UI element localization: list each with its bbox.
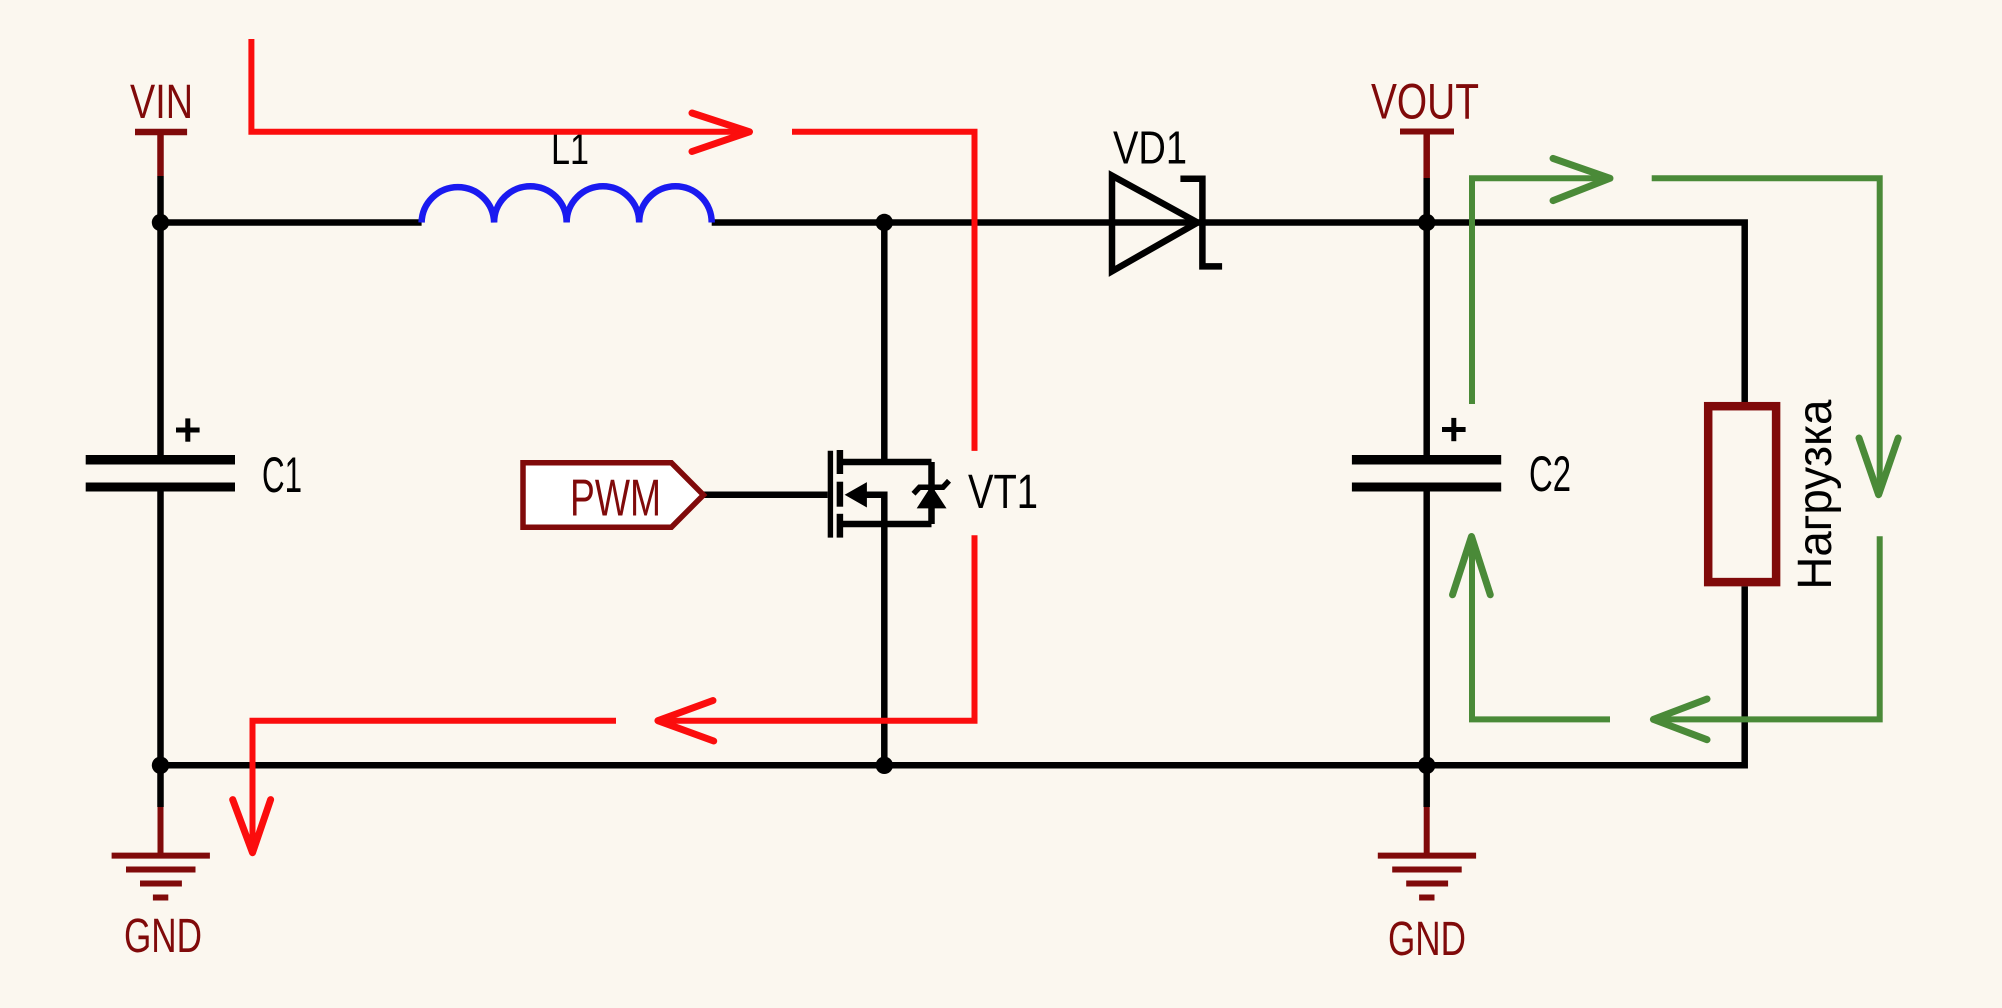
svg-text:C1: C1 <box>262 447 302 503</box>
wire VOUT rail lower (C2 to GND) <box>1423 492 1430 766</box>
svg-text:PWM: PWM <box>570 470 661 528</box>
wire VOUT rail upper (to C2) <box>1423 223 1430 456</box>
svg-text:C2: C2 <box>1529 446 1571 502</box>
ground GND1 <box>112 807 210 898</box>
wire VT1 drain <box>881 223 888 463</box>
green arrow left (bottom) <box>1653 699 1707 740</box>
capacitor C1 <box>86 418 235 487</box>
VT1 body diode triangle <box>918 486 946 508</box>
wire VIN stub <box>157 176 164 223</box>
ground GND2 <box>1378 807 1476 898</box>
wire VT1 source to GND <box>881 524 888 765</box>
node VT1 source junction <box>876 757 893 774</box>
resistor load (Нагрузка) <box>1708 406 1776 582</box>
power symbol VIN <box>135 132 187 176</box>
svg-text:VOUT: VOUT <box>1371 74 1479 130</box>
node GND left junction <box>152 757 169 774</box>
svg-text:GND: GND <box>124 910 202 963</box>
green arrow up (left leg) <box>1453 537 1491 595</box>
svg-text:VIN: VIN <box>130 76 193 129</box>
capacitor C2 <box>1352 418 1501 487</box>
wire GND1 stub <box>157 765 164 807</box>
red arrow right (top) <box>692 113 750 152</box>
svg-text:VD1: VD1 <box>1113 122 1187 174</box>
wire left rail lower (C1 to GND net) <box>157 492 164 766</box>
green current path: VOUT through load loop <box>1472 178 1880 719</box>
wire left rail upper (VIN node to C1) <box>157 223 164 456</box>
svg-text:GND: GND <box>1388 913 1466 966</box>
node GND right junction <box>1418 757 1435 774</box>
node VT1 drain junction <box>876 214 893 231</box>
red arrow down (to GND) <box>233 800 271 853</box>
red current path: VIN to VT1 drain (on-state loop, top) <box>251 39 974 849</box>
diode VD1 <box>1112 176 1222 272</box>
wire bottom net (GND rail) <box>161 586 1745 765</box>
inductor L1 <box>422 186 712 222</box>
svg-text:Нагрузка: Нагрузка <box>1789 399 1842 589</box>
green arrow down (right leg) <box>1859 438 1898 495</box>
power symbol VOUT <box>1400 132 1454 179</box>
red arrow left (bottom) <box>658 701 714 742</box>
transistor VT1 (N-MOSFET) <box>830 450 949 538</box>
node VIN junction <box>152 214 169 231</box>
wire L1 to load corner (top net through VD1, VOUT) <box>712 223 1745 403</box>
svg-text:VT1: VT1 <box>968 466 1038 519</box>
node VOUT junction <box>1418 214 1435 231</box>
wire GND2 stub <box>1423 765 1430 807</box>
VT1 source arrow <box>846 483 867 507</box>
green arrow right (top) <box>1553 158 1610 200</box>
wire top-left (VIN node to L1) <box>161 219 422 226</box>
wire VOUT stub <box>1423 178 1430 223</box>
wire PWM to gate <box>704 492 828 499</box>
hierarchical label PWM flag <box>523 463 704 527</box>
